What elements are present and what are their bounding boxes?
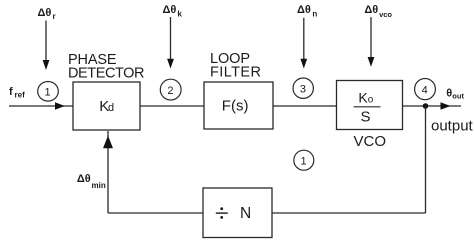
label delta-theta-vco bbox=[364, 4, 392, 19]
label delta-theta-n bbox=[297, 4, 317, 19]
svg-text:Δθ: Δθ bbox=[297, 4, 311, 16]
svg-text:vco: vco bbox=[379, 10, 392, 19]
label f_ref input signal bbox=[9, 86, 25, 100]
svg-text:FILTER: FILTER bbox=[210, 64, 261, 80]
svg-text:3: 3 bbox=[300, 84, 306, 96]
svg-text:1: 1 bbox=[45, 87, 51, 99]
svg-text:F(s): F(s) bbox=[222, 98, 249, 115]
svg-text:2: 2 bbox=[167, 85, 173, 97]
node 1 circle bbox=[38, 82, 59, 102]
svg-text:Δθ: Δθ bbox=[364, 4, 378, 16]
svg-text:o: o bbox=[368, 95, 374, 106]
block phase detector Kd bbox=[73, 82, 140, 130]
wire f_ref to phase detector with arrowhead bbox=[9, 102, 73, 109]
node 2 circle bbox=[160, 79, 181, 100]
svg-text:N: N bbox=[240, 205, 251, 222]
arrow delta-theta-r input bbox=[43, 21, 50, 71]
wire Kd to F(s) bbox=[140, 105, 204, 107]
arrow delta-theta-k input bbox=[167, 17, 174, 69]
svg-text:k: k bbox=[177, 10, 182, 19]
wire divider to feedback riser bbox=[108, 212, 203, 214]
node 3 circle bbox=[293, 78, 313, 98]
label delta-theta-r bbox=[38, 7, 56, 21]
wire output junction down bbox=[425, 106, 427, 213]
label LOOP FILTER bbox=[210, 51, 261, 80]
label theta_out bbox=[446, 88, 464, 101]
junction dot output node bbox=[423, 103, 429, 109]
svg-text:S: S bbox=[361, 109, 371, 126]
svg-text:Δθ: Δθ bbox=[77, 173, 91, 185]
svg-text:output: output bbox=[431, 118, 474, 135]
block divide-by-N bbox=[203, 188, 272, 238]
wire feedback bottom right to divider bbox=[272, 212, 426, 214]
svg-text:f: f bbox=[9, 86, 13, 98]
node 4 circle bbox=[415, 79, 436, 100]
block loop filter F(s) bbox=[204, 82, 273, 129]
arrow delta-theta-n input bbox=[300, 18, 307, 69]
wire VCO to output with arrowhead bbox=[403, 102, 462, 109]
svg-text:Δθ: Δθ bbox=[38, 7, 52, 19]
svg-text:out: out bbox=[452, 91, 464, 100]
svg-text:min: min bbox=[92, 181, 106, 190]
node 1 circle (loop reference) bbox=[294, 150, 314, 170]
wire F(s) to VCO bbox=[273, 105, 337, 107]
svg-text:4: 4 bbox=[422, 85, 428, 97]
block VCO Ko/S bbox=[337, 81, 403, 130]
svg-text:Δθ: Δθ bbox=[163, 4, 177, 16]
svg-text:r: r bbox=[53, 12, 56, 21]
svg-text:n: n bbox=[312, 10, 317, 19]
wire feedback riser with arrowhead into Kd bbox=[103, 131, 113, 213]
svg-text:DETECTOR: DETECTOR bbox=[68, 66, 145, 82]
svg-text:ref: ref bbox=[15, 91, 26, 100]
svg-text:d: d bbox=[108, 102, 114, 114]
label PHASE DETECTOR bbox=[68, 52, 145, 82]
arrow delta-theta-vco input bbox=[368, 17, 375, 67]
svg-text:1: 1 bbox=[300, 156, 306, 168]
label delta-theta-min bbox=[77, 173, 106, 190]
label delta-theta-k bbox=[163, 4, 183, 19]
svg-text:VCO: VCO bbox=[354, 133, 387, 150]
